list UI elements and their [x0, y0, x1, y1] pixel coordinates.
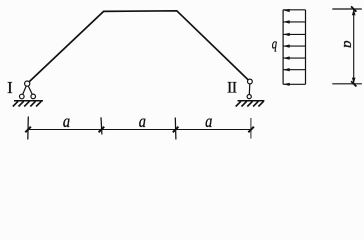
svg-text:a: a [340, 40, 356, 48]
bottom dimension tick 1 [27, 117, 30, 140]
svg-text:I: I [7, 78, 13, 97]
label I [7, 78, 13, 97]
label a (span 1) [63, 111, 70, 132]
label q [272, 35, 278, 52]
support II link [248, 82, 251, 97]
svg-text:q: q [272, 35, 278, 52]
support II base circle [247, 95, 251, 99]
right dimension slashes [351, 6, 356, 86]
bottom dimension tick 4 [250, 118, 252, 139]
right dimension line [353, 9, 355, 84]
right dimension arrowheads [352, 9, 356, 84]
support I left base circle [20, 94, 25, 99]
label a (span 2) [139, 111, 146, 132]
bottom dimension tick 3 [174, 118, 177, 140]
bottom dimension tick 2 [100, 117, 103, 134]
frame members (left diagonal, top chord, right diagonal) [27, 11, 250, 84]
bottom dimension slashes [25, 127, 254, 133]
svg-text:II: II [227, 80, 237, 97]
label a (span 3) [205, 110, 212, 131]
svg-text:a: a [63, 111, 70, 132]
support I ground line [14, 100, 43, 102]
label II [227, 80, 237, 97]
support II hinge circle [248, 79, 253, 84]
support I right base circle [31, 94, 36, 99]
svg-text:a: a [139, 111, 146, 132]
svg-text:a: a [205, 110, 212, 131]
distributed load q : arrow stems [283, 10, 305, 85]
support I ground hatching [13, 101, 42, 106]
label a (right, rotated) [340, 40, 356, 48]
bottom dimension line [28, 129, 251, 131]
distributed load q : box side lines [283, 10, 305, 85]
distributed load q : arrowheads [283, 9, 290, 86]
support I leg links [22, 84, 33, 97]
right dimension top tick [332, 8, 362, 10]
right dimension bottom tick [332, 83, 362, 85]
support II ground line [238, 100, 265, 102]
support II ground hatching [236, 101, 264, 106]
support I hinge circle [25, 81, 30, 86]
